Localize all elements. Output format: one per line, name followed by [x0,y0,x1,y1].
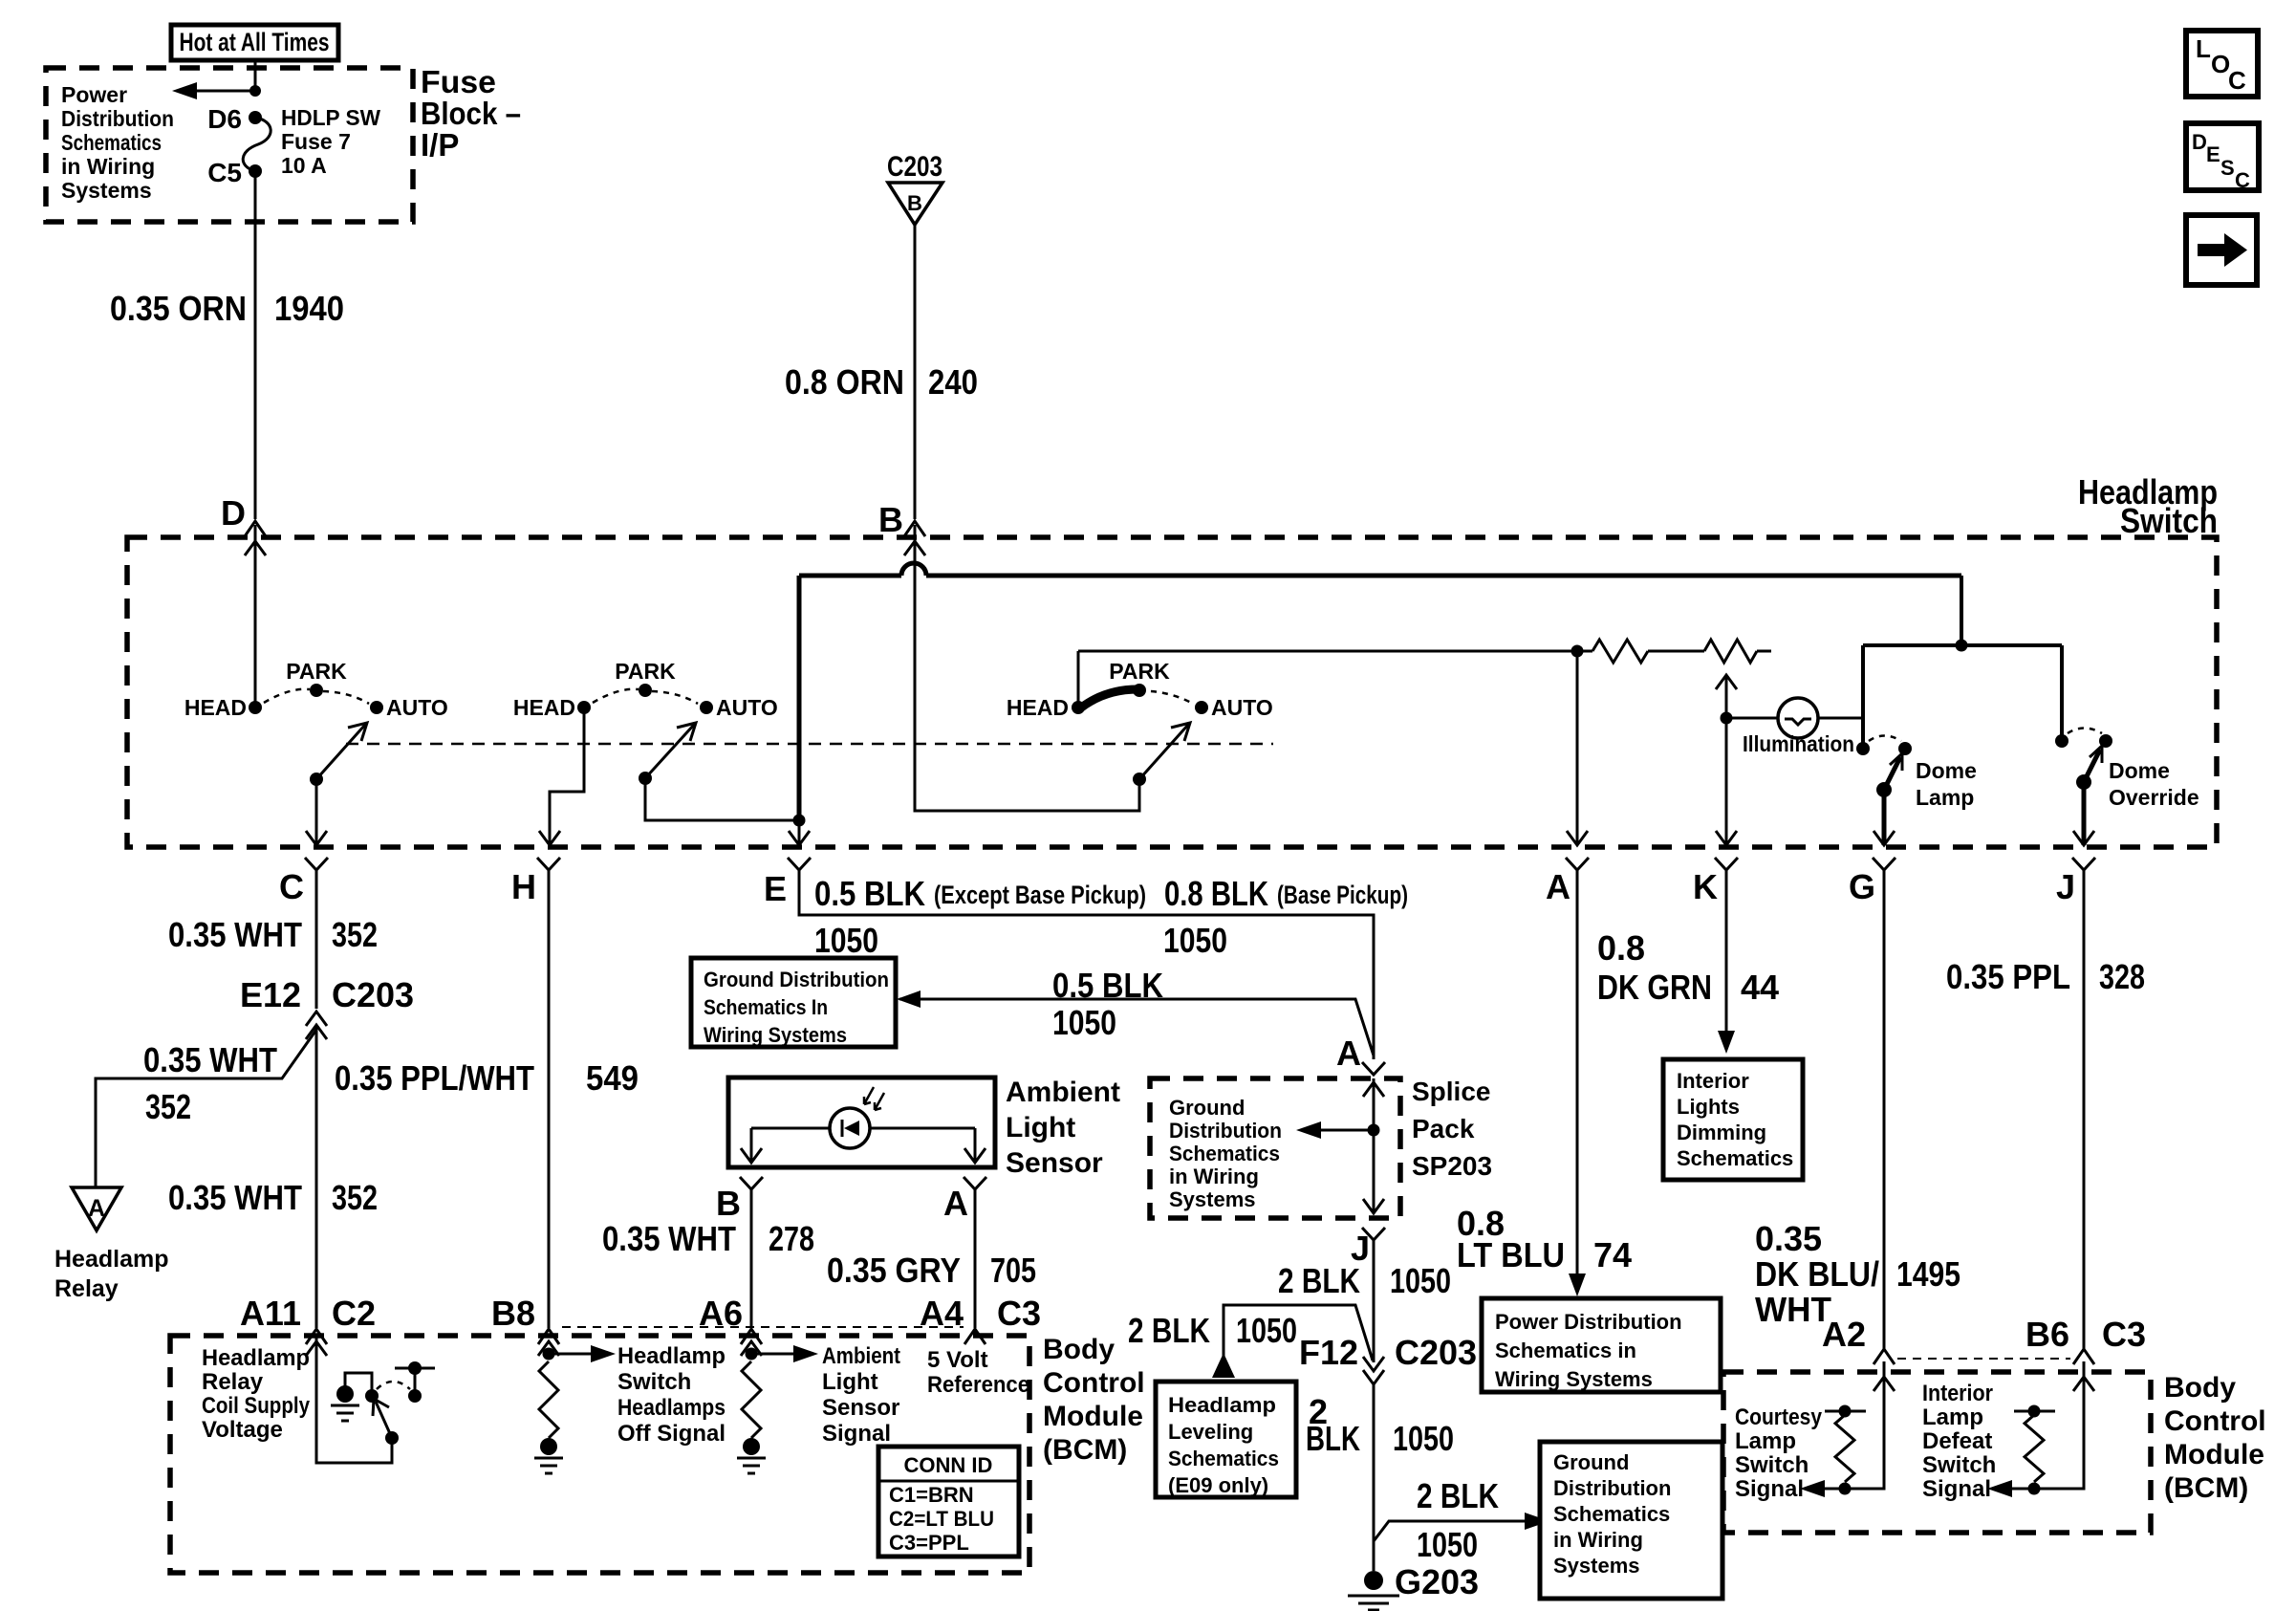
svg-text:Headlamp: Headlamp [1168,1393,1276,1417]
svg-text:C: C [2228,66,2246,95]
svg-text:A: A [1546,867,1570,906]
wire C lower [315,1027,318,1328]
wire thick top rail with hop over B [799,574,901,578]
wire E node vertical [797,576,802,820]
svg-text:E12: E12 [240,975,301,1014]
switch S1 wiper [310,773,323,786]
svg-text:Signal: Signal [822,1421,891,1447]
svg-text:Headlamp: Headlamp [202,1345,310,1371]
svg-text:0.35 WHT: 0.35 WHT [168,915,302,954]
CONN ID table [878,1447,1019,1557]
svg-text:2 BLK: 2 BLK [1128,1311,1210,1350]
BCM2 dashed box [1723,1372,2151,1533]
svg-text:J: J [2056,867,2075,906]
potentiometer wiper arrow [1725,677,1728,718]
svg-text:C203: C203 [1395,1333,1477,1372]
svg-text:(Except Base Pickup): (Except Base Pickup) [934,881,1146,909]
svg-text:Signal: Signal [1735,1476,1804,1502]
svg-text:A11: A11 [240,1294,301,1333]
wire A4 stub [974,1329,977,1336]
svg-text:240: 240 [928,362,978,402]
svg-text:A: A [88,1195,105,1222]
svg-text:B: B [907,191,922,215]
svg-text:A4: A4 [920,1294,964,1333]
svg-text:Power: Power [61,82,127,107]
svg-text:Lamp: Lamp [1922,1404,1983,1430]
label Hot at All Times box [171,25,338,60]
svg-text:Dome: Dome [2109,758,2170,783]
resistor headlamps off signal [539,1361,558,1438]
svg-text:Leveling: Leveling [1168,1420,1253,1444]
ambient light sensor box [728,1078,995,1167]
resistor interior lamp defeat [2014,1410,2055,1413]
svg-text:0.35 PPL: 0.35 PPL [1946,957,2070,996]
svg-text:278: 278 [769,1219,814,1258]
svg-text:Signal: Signal [1922,1476,1991,1502]
svg-text:Schematics: Schematics [1168,1447,1279,1470]
svg-text:Relay: Relay [202,1369,264,1395]
wire down to dome lamp contact [1861,645,1865,749]
node C5 [249,164,262,178]
potentiometer R2 [1704,640,1757,663]
wire 0.8 ORN 240 [914,225,917,519]
svg-text:Ground: Ground [1169,1096,1245,1120]
svg-text:AUTO: AUTO [386,695,448,720]
svg-text:Wiring Systems: Wiring Systems [704,1023,847,1047]
wire C down [315,870,318,1009]
svg-text:Lamp: Lamp [1735,1428,1796,1454]
headlamp leveling schematics box [1156,1382,1296,1497]
wire K exit [1725,718,1728,845]
svg-text:PARK: PARK [1109,659,1170,684]
svg-text:352: 352 [332,915,378,954]
svg-text:Wiring Systems: Wiring Systems [1495,1367,1653,1391]
svg-text:S: S [2220,156,2235,180]
lamp illumination [1778,698,1818,738]
svg-text:Light: Light [1006,1112,1075,1143]
svg-text:K: K [1693,867,1718,906]
svg-text:Schematics: Schematics [1169,1142,1280,1165]
ground distribution schematics box (left) [691,958,896,1047]
ground distribution schematics box (bottom right) [1540,1442,1722,1599]
svg-text:Switch: Switch [1922,1452,1996,1478]
wire sensor A down [974,1189,977,1328]
wire hot feed [254,60,257,91]
dome lamp switch contacts [1856,742,1870,755]
svg-text:DK BLU/: DK BLU/ [1755,1254,1879,1294]
svg-text:(BCM): (BCM) [2164,1472,2248,1504]
svg-text:Distribution: Distribution [61,106,174,131]
svg-text:1050: 1050 [1236,1311,1297,1350]
switch S2 contacts [577,701,591,714]
svg-text:1050: 1050 [1052,1003,1116,1042]
svg-text:A: A [1336,1034,1361,1073]
svg-text:Switch: Switch [617,1369,691,1395]
icon DESC [2186,123,2259,190]
terminal B sensor [740,1177,763,1189]
svg-text:C: C [279,867,304,906]
svg-text:Systems: Systems [1169,1187,1256,1211]
photodiode [751,1127,975,1130]
splice internal arrow [1319,1129,1374,1132]
sensor wire A [974,1128,977,1163]
svg-text:(E09 only): (E09 only) [1168,1473,1268,1497]
terminal A [1566,858,1589,870]
svg-text:44: 44 [1741,968,1779,1007]
resistor courtesy lamp [1825,1410,1866,1413]
svg-text:C: C [2235,168,2250,192]
svg-text:352: 352 [332,1178,378,1217]
wire D into switch [254,525,257,708]
dome override wiper [2076,774,2091,790]
svg-text:Schematics In: Schematics In [704,995,828,1019]
wire 0.35 ORN 1940 [254,171,257,519]
svg-text:C3: C3 [2102,1315,2146,1354]
svg-text:WHT: WHT [1755,1290,1831,1329]
svg-text:Reference: Reference [927,1372,1029,1398]
svg-text:HEAD: HEAD [184,695,247,720]
svg-text:Ground Distribution: Ground Distribution [704,968,889,991]
svg-text:Sensor: Sensor [822,1395,899,1421]
terminal A sensor [964,1177,986,1189]
wire K down [1725,870,1728,1031]
svg-text:Systems: Systems [1553,1554,1640,1578]
wire S2 wiper to E node [645,778,799,820]
svg-text:0.8 ORN: 0.8 ORN [785,362,904,402]
node illumination feed junction [1956,640,1968,652]
svg-text:1050: 1050 [814,921,878,960]
terminal G [1873,858,1895,870]
thin connector dashed line BCM1 [562,1326,964,1328]
svg-text:Control: Control [1043,1367,1145,1399]
wire corner down [1960,576,1963,645]
svg-text:C1=BRN: C1=BRN [889,1483,974,1507]
switch S1 contacts [249,701,262,714]
svg-text:2 BLK: 2 BLK [1278,1261,1360,1300]
terminal J [2072,858,2095,870]
wire G exit [1882,790,1887,845]
dome override switch contacts [2055,734,2069,748]
terminal E [788,858,811,870]
resistor rail [1078,650,1592,653]
wire B into switch [915,525,1139,811]
svg-text:0.8: 0.8 [1597,928,1645,968]
svg-text:(Base Pickup): (Base Pickup) [1277,881,1408,909]
splice pack SP203 dashed box [1150,1078,1400,1218]
BCM1 dashed box [170,1336,1029,1573]
svg-text:B8: B8 [491,1294,535,1333]
svg-text:E: E [2206,142,2220,166]
switch S3 wiper [1133,773,1146,786]
svg-text:Lamp: Lamp [1916,785,1974,810]
branch to headlamp leveling [1224,1305,1373,1361]
svg-text:Sensor: Sensor [1006,1147,1103,1179]
svg-text:BLK: BLK [1306,1419,1360,1458]
wire A down [1576,870,1579,1274]
dome lamp wiper [1876,782,1892,797]
arrow to power distribution schematics [180,90,255,93]
svg-text:HEAD: HEAD [1007,695,1069,720]
svg-text:Module: Module [1043,1401,1143,1432]
wire 0.5 BLK 1050 to ground distribution [899,999,1374,1056]
power distribution schematics box [1482,1298,1721,1392]
svg-text:HDLP SW: HDLP SW [281,105,380,130]
svg-text:B: B [878,500,903,539]
svg-text:LT BLU: LT BLU [1457,1235,1565,1274]
svg-text:A: A [943,1184,968,1223]
resistor ambient light sensor signal [742,1361,761,1438]
svg-text:705: 705 [990,1251,1036,1290]
svg-text:Relay: Relay [54,1275,119,1302]
svg-text:Fuse: Fuse [421,64,496,99]
svg-text:Hot at All Times: Hot at All Times [180,28,330,56]
svg-text:Switch: Switch [2120,501,2218,540]
svg-text:Body: Body [2164,1372,2236,1404]
wire G into BCM2 [1823,1361,1884,1489]
svg-text:Schematics in: Schematics in [1495,1339,1636,1362]
svg-text:H: H [511,867,536,906]
svg-text:C2: C2 [332,1294,376,1333]
svg-text:A2: A2 [1822,1315,1866,1354]
svg-text:D: D [221,493,246,533]
svg-text:Splice: Splice [1412,1077,1490,1106]
wire A exit [1576,651,1579,845]
mechanical link dashed line [346,743,1273,746]
svg-text:F12: F12 [1299,1333,1358,1372]
svg-text:328: 328 [2099,957,2145,996]
svg-text:AUTO: AUTO [716,695,778,720]
switch S2 wiper [639,772,652,785]
svg-text:PARK: PARK [615,659,676,684]
svg-text:Ambient: Ambient [1006,1077,1120,1108]
svg-text:1050: 1050 [1417,1525,1478,1564]
svg-text:Dome: Dome [1916,758,1977,783]
svg-text:C203: C203 [332,975,414,1014]
icon LOC [2186,31,2258,97]
svg-text:0.35 WHT: 0.35 WHT [168,1178,302,1217]
wire to lamp [1726,717,1778,720]
wire illumination rail [1863,643,2062,647]
svg-text:Headlamp: Headlamp [617,1343,726,1369]
svg-text:C3=PPL: C3=PPL [889,1531,969,1555]
svg-text:0.35 ORN: 0.35 ORN [110,289,247,328]
branch wire to headlamp relay [96,1030,316,1187]
node A junction [1571,645,1584,658]
terminal C [305,858,328,870]
svg-text:Interior: Interior [1922,1381,1993,1406]
svg-text:Voltage: Voltage [202,1417,283,1443]
wire through splice pack [1373,1078,1375,1213]
fuse F7 HDLP SW 10A [243,118,271,171]
svg-text:1495: 1495 [1896,1254,1960,1294]
resistor R1 [1592,640,1648,663]
svg-text:Systems: Systems [61,178,152,203]
svg-text:Distribution: Distribution [1169,1119,1282,1143]
wire E to splice pack A [799,870,1374,1059]
svg-text:D6: D6 [207,104,242,134]
svg-text:Fuse 7: Fuse 7 [281,129,351,154]
svg-text:Module: Module [2164,1439,2264,1470]
svg-text:PARK: PARK [286,659,347,684]
wire between resistors [1648,650,1704,653]
svg-text:G203: G203 [1395,1562,1479,1601]
svg-text:in Wiring: in Wiring [1553,1528,1643,1552]
svg-text:0.35 WHT: 0.35 WHT [602,1219,736,1258]
svg-text:Ground: Ground [1553,1450,1629,1474]
pin A6 connector light sensor [741,1329,762,1344]
svg-text:0.35 GRY: 0.35 GRY [827,1251,961,1290]
svg-text:1050: 1050 [1393,1419,1454,1458]
wire G down [1883,870,1886,1349]
svg-text:2 BLK: 2 BLK [1417,1476,1499,1515]
switch S3 contacts [1072,701,1085,714]
wire B8 into BCM [538,1341,559,1356]
svg-text:1940: 1940 [274,289,344,328]
branch to ground distribution (right) [1374,1521,1527,1541]
icon arrow right [2186,215,2257,285]
svg-text:Schematics: Schematics [61,130,162,155]
svg-text:Body: Body [1043,1334,1115,1365]
svg-text:0.35 WHT: 0.35 WHT [143,1040,277,1079]
wire splice to C203 [1373,1240,1375,1362]
svg-text:in Wiring: in Wiring [61,154,155,179]
thin connector dashed line BCM2 [1897,1358,2070,1360]
svg-text:Interior: Interior [1677,1069,1749,1093]
wire J down [2083,870,2086,1349]
node K junction [1721,712,1733,725]
relay driver switch in BCM [385,1431,399,1445]
wire E exit [798,820,801,845]
interior lights dimming schematics box [1663,1059,1803,1180]
svg-text:C203: C203 [887,151,942,183]
svg-text:74: 74 [1593,1235,1632,1274]
wire J into BCM2 [2010,1361,2084,1489]
terminal H [537,858,560,870]
svg-text:G: G [1849,867,1875,906]
svg-text:1050: 1050 [1163,921,1227,960]
svg-text:E: E [764,869,787,908]
svg-text:C3: C3 [997,1294,1041,1333]
svg-text:I/P: I/P [421,127,459,163]
svg-text:0.35 PPL/WHT: 0.35 PPL/WHT [335,1058,534,1098]
svg-text:0.8 BLK: 0.8 BLK [1164,874,1268,913]
terminal D [245,521,266,536]
svg-text:Headlamps: Headlamps [617,1395,726,1421]
svg-text:Headlamp: Headlamp [54,1246,168,1273]
svg-text:0.5 BLK: 0.5 BLK [814,874,925,913]
node D6 [249,111,262,124]
terminal K [1715,858,1738,870]
svg-text:Off Signal: Off Signal [617,1421,726,1447]
wire A6 into BCM [741,1341,762,1356]
svg-text:Override: Override [2109,785,2199,810]
svg-text:Pack: Pack [1412,1114,1475,1143]
svg-text:L: L [2196,34,2211,63]
node E junction [793,815,806,827]
svg-text:Defeat: Defeat [1922,1428,1992,1454]
svg-text:1050: 1050 [1390,1261,1451,1300]
wire J exit [2082,782,2087,845]
svg-text:5 Volt: 5 Volt [927,1347,988,1373]
svg-text:in Wiring: in Wiring [1169,1165,1259,1188]
svg-text:Block –: Block – [421,96,521,131]
svg-text:Light: Light [822,1369,878,1395]
svg-text:Dimming: Dimming [1677,1121,1766,1144]
svg-text:HEAD: HEAD [513,695,575,720]
wire S3 HEAD up to resistor rail [1077,651,1080,708]
wire down to dome override contact [2060,645,2064,741]
svg-text:10 A: 10 A [281,153,327,178]
svg-text:352: 352 [145,1087,191,1126]
wire C203 to G203 [1373,1384,1375,1571]
svg-text:Distribution: Distribution [1553,1476,1671,1500]
headlamp switch dashed box [127,537,2217,847]
svg-text:Courtesy: Courtesy [1735,1404,1823,1430]
svg-text:Control: Control [2164,1405,2266,1437]
svg-text:CONN ID: CONN ID [904,1453,993,1477]
wire S1 wiper to C [315,779,318,845]
terminal A splice pack [1362,1062,1385,1075]
svg-text:D: D [2192,130,2207,154]
svg-text:Lights: Lights [1677,1095,1740,1119]
svg-text:B: B [716,1184,741,1223]
svg-text:Ambient: Ambient [822,1343,900,1369]
terminal J splice exit [1362,1228,1385,1240]
ref triangle A headlamp relay [72,1187,121,1230]
svg-text:C2=LT BLU: C2=LT BLU [889,1507,994,1531]
svg-text:B6: B6 [2025,1315,2069,1354]
svg-text:(BCM): (BCM) [1043,1434,1127,1466]
node SP203 junction [1368,1124,1380,1137]
svg-text:Schematics: Schematics [1677,1146,1793,1170]
ground G203 [1364,1571,1383,1590]
svg-text:Coil Supply: Coil Supply [202,1393,311,1419]
svg-text:0.35: 0.35 [1755,1219,1822,1258]
svg-text:SP203: SP203 [1412,1151,1492,1181]
svg-text:Illumination: Illumination [1743,731,1854,756]
svg-text:DK GRN: DK GRN [1597,968,1712,1007]
wire S2 HEAD to H [550,708,584,845]
wire H down [548,870,551,1328]
svg-text:AUTO: AUTO [1211,695,1273,720]
wire A11 into BCM [316,1336,392,1463]
sensor wire B [750,1128,753,1163]
wire sensor B down [750,1189,753,1328]
svg-text:Switch: Switch [1735,1452,1809,1478]
wire lamp to dome lamp switch [1818,717,1863,720]
svg-text:C5: C5 [207,158,242,187]
svg-text:Power Distribution: Power Distribution [1495,1310,1682,1334]
svg-text:0.5 BLK: 0.5 BLK [1052,966,1163,1005]
terminal B [904,521,925,536]
svg-text:Schematics: Schematics [1553,1502,1670,1526]
fuse block I/P dashed box [46,68,413,222]
svg-text:549: 549 [586,1058,639,1098]
